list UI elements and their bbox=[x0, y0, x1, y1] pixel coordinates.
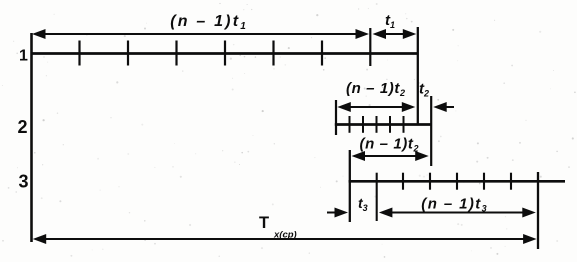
dimension arrow t1 bbox=[373, 29, 417, 39]
vertical line end of signal 1 (x=418) bbox=[417, 27, 419, 125]
svg-text:x(cp): x(cp) bbox=[273, 230, 297, 241]
signal 1 extended tick at (n-1)t1 boundary bbox=[369, 28, 371, 66]
outside arrow t2 right bbox=[433, 102, 454, 112]
svg-text:(n – 1)t3: (n – 1)t3 bbox=[421, 196, 486, 214]
outside arrow t3 left bbox=[327, 208, 348, 218]
svg-text:3: 3 bbox=[19, 172, 29, 192]
dimension arrow (n-1)t2 upper bbox=[337, 102, 415, 112]
signal 3 clock ticks t3 bbox=[403, 173, 511, 190]
signal 2 clock ticks t2 bbox=[350, 116, 404, 133]
dimension arrow (n-1)t1 bbox=[32, 29, 369, 39]
signal 1 clock ticks t1 bbox=[80, 41, 323, 66]
svg-text:(n – 1)t2: (n – 1)t2 bbox=[360, 136, 419, 154]
svg-text:(n – 1)t2: (n – 1)t2 bbox=[346, 80, 405, 98]
signal 1 axis bbox=[31, 52, 419, 55]
svg-text:1: 1 bbox=[19, 48, 28, 65]
svg-text:(n – 1)t1: (n – 1)t1 bbox=[170, 13, 246, 32]
dimension arrow Tx total bbox=[33, 234, 537, 244]
vertical line end of signal 2 (x=431) bbox=[430, 96, 432, 166]
svg-text:2: 2 bbox=[18, 117, 28, 137]
vertical line start of signal 2 (x=336) bbox=[335, 100, 337, 135]
vertical line at (n-1)t3 right boundary (x=538) bbox=[537, 172, 539, 249]
svg-text:T: T bbox=[259, 214, 269, 232]
vertical line start of signal 3 (x=350) bbox=[349, 150, 351, 222]
signal 3 extended tick t3 boundary (x=377) bbox=[376, 173, 378, 221]
dimension arrow (n-1)t3 bbox=[379, 208, 536, 218]
left vertical line (start of interval, x=31) bbox=[30, 33, 33, 242]
signal 3 axis bbox=[349, 180, 565, 183]
signal 2 axis bbox=[335, 123, 432, 126]
dimension arrow (n-1)t2 lower bbox=[352, 151, 429, 161]
